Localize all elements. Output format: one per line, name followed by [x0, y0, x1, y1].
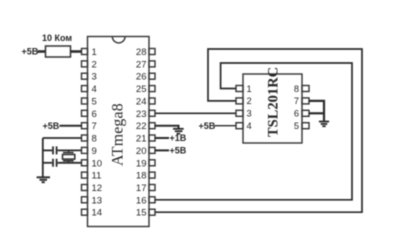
- IC U1 ATmega8 (microcontroller) body: [88, 37, 150, 227]
- svg-text:23: 23: [136, 109, 147, 120]
- U1 pin 22 box: [149, 123, 155, 129]
- svg-text:1: 1: [247, 84, 252, 94]
- svg-text:11: 11: [92, 171, 102, 182]
- wire U1 pin 23 to U2 pin 3: [155, 112, 236, 114]
- wire U1 pin 20 to +5B: [155, 149, 169, 151]
- U2 pin 7 box: [302, 98, 309, 104]
- U1 pin 7 box: [82, 123, 88, 129]
- wire U2 pin 2 to U1 pin 15 (outer loop): [155, 49, 362, 212]
- svg-text:21: 21: [136, 134, 147, 145]
- wire +5B to resistor: [38, 50, 46, 53]
- wire U1 pin 10 to capacitor: [43, 162, 52, 164]
- svg-text:7: 7: [92, 121, 97, 132]
- wire U2 pin 1 to U1 pin 16 (inner loop): [155, 63, 352, 200]
- wire U1 pin 9 to capacitor: [43, 149, 52, 151]
- capacitor C1 plates: [53, 146, 57, 154]
- capacitor C2 plates: [53, 159, 57, 167]
- U2 pin 2 box: [236, 98, 243, 104]
- svg-text:+5В: +5В: [199, 121, 216, 131]
- U1 notch: [112, 37, 125, 43]
- svg-text:25: 25: [136, 84, 147, 95]
- U1 pin 20 box: [149, 147, 155, 153]
- svg-text:2: 2: [92, 59, 97, 70]
- U1 pin 10 box: [82, 160, 88, 166]
- U2 pin 6 box: [302, 110, 309, 116]
- wire +5B to U1 pin 7: [60, 125, 82, 127]
- wire U1 pin 21 to +1B: [155, 137, 169, 139]
- svg-text:ATmega8: ATmega8: [110, 103, 127, 166]
- U2 pin 1 box: [236, 86, 243, 92]
- svg-text:22: 22: [136, 121, 147, 132]
- svg-text:12: 12: [92, 183, 103, 194]
- wire U1 pin 8 to left vertical: [43, 137, 82, 139]
- U2 pin 3 box: [236, 110, 243, 116]
- wire capacitor C1 to U1 pin 9: [58, 149, 82, 151]
- svg-text:10: 10: [92, 158, 103, 169]
- svg-text:7: 7: [294, 96, 299, 106]
- crystal Q1 top plate: [63, 152, 74, 154]
- U1 pin 19 box: [149, 160, 155, 166]
- svg-text:+5В: +5В: [22, 47, 39, 57]
- svg-text:8: 8: [294, 84, 299, 94]
- U1 pin 25 box: [149, 86, 155, 92]
- U1 pin 27 box: [149, 61, 155, 67]
- svg-text:6: 6: [294, 109, 299, 119]
- svg-text:20: 20: [136, 146, 147, 157]
- U1 pin 3 box: [82, 73, 88, 79]
- svg-text:19: 19: [136, 158, 147, 169]
- svg-text:28: 28: [136, 47, 147, 58]
- U1 pin 11 box: [82, 172, 88, 178]
- svg-text:5: 5: [294, 121, 299, 131]
- wire +5B to U2 pin 4: [215, 125, 237, 127]
- U2 pin 5 box: [302, 123, 309, 129]
- svg-text:+1В: +1В: [170, 133, 187, 143]
- U1 pin 12 box: [82, 185, 88, 191]
- wire U1 pin 22 to ground: [155, 126, 179, 129]
- svg-text:4: 4: [247, 121, 252, 131]
- U1 pin 16 box: [149, 197, 155, 203]
- U1 pin 15 box: [149, 209, 155, 215]
- svg-text:10 Ком: 10 Ком: [42, 33, 72, 43]
- wire left vertical to ground: [42, 138, 44, 177]
- svg-text:24: 24: [136, 97, 147, 108]
- svg-text:+5В: +5В: [170, 146, 187, 156]
- ground symbol G1 (crystal): [37, 177, 50, 182]
- U1 pin 9 box: [82, 147, 88, 153]
- svg-text:6: 6: [92, 109, 97, 120]
- U1 pin 21 box: [149, 135, 155, 141]
- U1 pin 28 box: [149, 49, 155, 55]
- svg-text:14: 14: [92, 208, 103, 219]
- svg-text:17: 17: [136, 183, 147, 194]
- U1 pin 8 box: [82, 135, 88, 141]
- U1 pin 26 box: [149, 73, 155, 79]
- svg-text:26: 26: [136, 72, 147, 83]
- svg-text:+5В: +5В: [43, 121, 60, 131]
- U1 pin 4 box: [82, 86, 88, 92]
- wire U2 pin 7 to ground vertical: [309, 101, 324, 121]
- U1 pin 23 box: [149, 110, 155, 116]
- crystal Q1 bottom plate: [63, 160, 74, 162]
- U1 pin 18 box: [149, 172, 155, 178]
- svg-text:4: 4: [92, 84, 97, 95]
- svg-text:2: 2: [247, 96, 252, 106]
- svg-text:8: 8: [92, 134, 97, 145]
- U1 pin 6 box: [82, 110, 88, 116]
- sensor U2 TSL201RC body: [243, 74, 302, 143]
- svg-text:13: 13: [92, 195, 103, 206]
- wire U2 pin 6 to ground vertical: [309, 112, 324, 114]
- svg-text:27: 27: [136, 59, 147, 70]
- U1 pin 17 box: [149, 185, 155, 191]
- U2 pin 4 box: [236, 123, 243, 129]
- U1 pin 2 box: [82, 61, 88, 67]
- svg-text:3: 3: [92, 72, 97, 83]
- svg-text:1: 1: [92, 47, 97, 58]
- svg-text:5: 5: [92, 97, 97, 108]
- resistor R1 body: [46, 46, 71, 57]
- U1 pin 5 box: [82, 98, 88, 104]
- U2 pin 8 box: [302, 86, 309, 92]
- crystal Q1 body: [63, 155, 75, 160]
- svg-text:16: 16: [136, 195, 147, 206]
- wire resistor to U1 pin 1: [71, 50, 82, 53]
- wire capacitor C2 to U1 pin 10: [58, 162, 82, 164]
- U1 pin 14 box: [82, 209, 88, 215]
- crystal Q1 bottom lead: [68, 161, 70, 163]
- U1 pin 24 box: [149, 98, 155, 104]
- svg-text:15: 15: [136, 208, 147, 219]
- U1 pin 1 box: [82, 49, 88, 55]
- ground symbol G2 (pin 22): [173, 129, 184, 134]
- svg-text:18: 18: [136, 171, 147, 182]
- svg-text:TSL201RC: TSL201RC: [265, 67, 281, 137]
- svg-text:3: 3: [247, 109, 252, 119]
- U1 pin 13 box: [82, 197, 88, 203]
- svg-text:9: 9: [92, 146, 97, 157]
- ground symbol G3 (U2): [319, 122, 329, 127]
- crystal Q1 top lead: [68, 150, 70, 152]
